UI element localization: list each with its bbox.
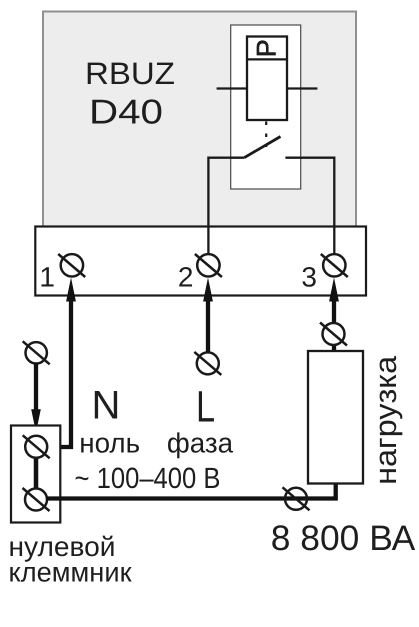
terminal 1 screw (58, 254, 85, 277)
svg-text:1: 1 (39, 262, 55, 293)
wire L: phase to terminal 2 (206, 299, 210, 363)
wire between block screws (34, 450, 39, 497)
device body RBUZ D40 (43, 12, 356, 229)
svg-text:3: 3 (301, 262, 317, 293)
load box (308, 351, 363, 484)
wire N: neutral block to terminal 1 (47, 299, 71, 447)
wire switch to terminal 2 (208, 158, 244, 256)
wire load to terminal 3 (332, 299, 336, 352)
svg-text:ноль: ноль (79, 427, 140, 458)
svg-text:2: 2 (178, 262, 194, 293)
coil terminal left (217, 87, 247, 89)
svg-text:RBUZ: RBUZ (85, 56, 175, 91)
wire switch to terminal 3 (285, 158, 334, 256)
relay actuation dashed link (265, 122, 267, 148)
arrowhead into terminal 3 (329, 278, 339, 302)
terminal 3 screw (321, 254, 348, 277)
load top screw (320, 323, 347, 346)
svg-text:фаза: фаза (167, 427, 234, 458)
relay contact switch (244, 137, 280, 158)
neutral terminal block (11, 426, 60, 523)
svg-text:D40: D40 (89, 94, 163, 132)
phase input screw (194, 352, 221, 375)
relay coil divider (247, 58, 287, 60)
svg-text:8 800 ВА: 8 800 ВА (271, 518, 416, 558)
splice screw on load wire (283, 487, 310, 510)
arrowhead into neutral block (31, 409, 41, 432)
neutral input screw (23, 341, 50, 364)
arrowhead into terminal 1 (66, 278, 76, 302)
relay module outline (231, 25, 301, 189)
svg-text:L: L (196, 383, 215, 432)
wire neutral input into block (34, 363, 38, 411)
svg-text:нагрузка: нагрузка (369, 356, 403, 485)
block screw top (23, 435, 50, 458)
svg-text:клеммник: клеммник (9, 557, 133, 588)
svg-text:~ 100–400 В: ~ 100–400 В (75, 462, 221, 495)
svg-text:Р: Р (251, 39, 281, 57)
arrowhead into terminal 2 (203, 278, 213, 302)
coil terminal right (287, 87, 317, 89)
svg-text:N: N (92, 383, 121, 427)
terminal strip (35, 227, 366, 296)
wire load bottom to neutral block (46, 483, 336, 499)
relay coil K1 (247, 37, 287, 121)
terminal 2 screw (195, 254, 222, 277)
block screw bottom (23, 488, 50, 511)
